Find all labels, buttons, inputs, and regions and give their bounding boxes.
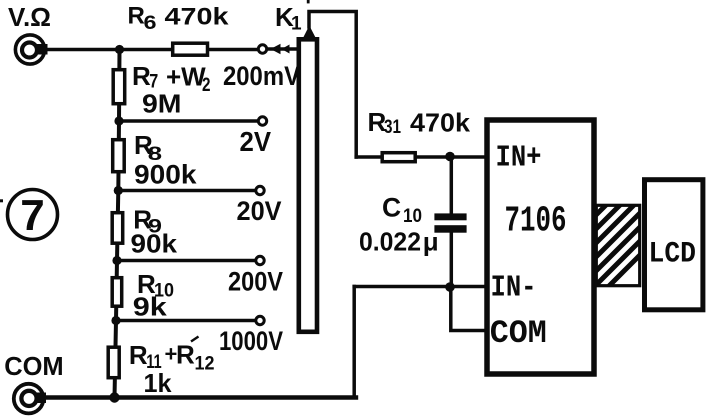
svg-text:20V: 20V: [237, 196, 282, 226]
svg-text:10: 10: [403, 205, 422, 227]
svg-text:6: 6: [144, 13, 157, 34]
svg-text:LCD: LCD: [649, 238, 697, 272]
svg-text:1k: 1k: [144, 368, 173, 398]
svg-text:31: 31: [384, 117, 401, 138]
svg-text:470k: 470k: [410, 108, 471, 138]
svg-text:200V: 200V: [228, 267, 283, 297]
svg-text:COM: COM: [490, 315, 547, 352]
svg-text:0.022: 0.022: [359, 227, 421, 257]
svg-text:C: C: [382, 193, 401, 223]
svg-text:R: R: [128, 3, 145, 30]
svg-text:R: R: [129, 340, 148, 370]
svg-text:470k: 470k: [165, 4, 229, 31]
svg-text:1000V: 1000V: [219, 326, 283, 356]
svg-text:2V: 2V: [240, 126, 272, 157]
svg-text:9M: 9M: [142, 89, 182, 119]
svg-text:IN+: IN+: [496, 141, 542, 176]
svg-text:900k: 900k: [134, 160, 198, 190]
svg-text:90k: 90k: [131, 229, 178, 259]
svg-text:7: 7: [20, 191, 44, 240]
svg-text:1: 1: [291, 14, 302, 35]
svg-text:9k: 9k: [133, 292, 168, 322]
svg-text:12: 12: [195, 354, 215, 375]
svg-text:7106: 7106: [505, 201, 567, 242]
svg-text:2: 2: [202, 75, 211, 96]
svg-text:200mV: 200mV: [223, 61, 300, 91]
svg-text:R: R: [132, 61, 151, 91]
svg-text:IN-: IN-: [491, 271, 537, 306]
svg-text:μ: μ: [423, 227, 439, 257]
svg-text:V.Ω: V.Ω: [8, 2, 51, 32]
svg-text:R: R: [176, 340, 195, 370]
svg-text:COM: COM: [4, 351, 64, 381]
svg-text:+W: +W: [166, 62, 206, 92]
